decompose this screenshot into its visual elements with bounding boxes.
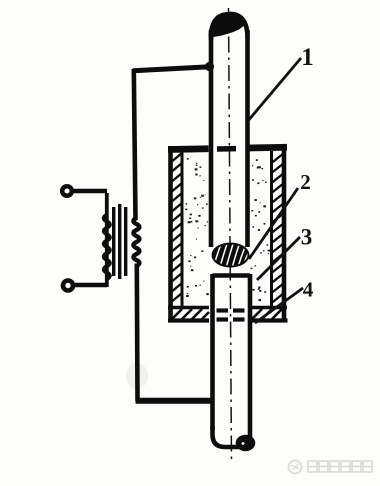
centerline axis [229,8,232,462]
svg-text:4: 4 [303,278,314,302]
leader line 2 [249,188,298,259]
wire: left vertical (secondary side) upper part [134,69,136,220]
primary winding L1 [105,193,109,287]
stipple filler dots [185,158,270,301]
leader line 1 [247,58,301,122]
electrode rod: lower rod [213,274,251,447]
wire: top horizontal from transformer loop to upper rod [133,67,210,71]
rod top cap ink [209,14,245,37]
svg-text:3: 3 [301,225,313,250]
leader line 4 [255,288,303,323]
transformer core [112,204,127,279]
faint scan smudge [126,363,148,389]
svg-text:2: 2 [300,170,311,194]
leader line 3 [257,237,300,280]
svg-text:1: 1 [301,44,314,71]
rod bottom cap ink [236,435,256,451]
input terminal bottom [63,281,73,291]
wire: left vertical lower part [135,264,140,402]
secondary winding L2 [133,218,139,266]
crucible 3: right wall [272,146,285,321]
crucible 3: top edge [168,144,287,153]
watermark icon [289,461,302,474]
crucible 3: left wall [170,146,182,321]
crucible 4: bottom insulating plug band [168,308,288,321]
junction dot [205,62,214,71]
hidden hole dashes in bottom plug [217,311,245,320]
weld bead 2: hatched ellipse [212,243,251,269]
electrode rod 1: upper rod [211,14,248,247]
wire: bottom horizontal to lower rod [136,398,215,404]
watermark text blocks [308,461,372,472]
input terminal top [62,186,72,196]
